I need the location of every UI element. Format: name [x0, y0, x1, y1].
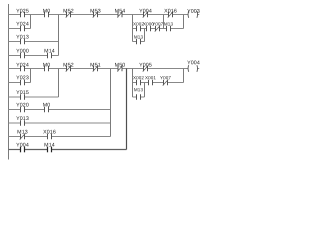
- svg-text:Y020: Y020: [16, 102, 29, 108]
- contact Y007 (NC) r6: [163, 80, 169, 86]
- svg-text:X001: X001: [145, 75, 156, 80]
- contact M50 (NC): [117, 66, 123, 72]
- contact Y005 (NC): [143, 66, 149, 72]
- contact M54 (NC): [117, 12, 123, 18]
- rung 1 wire (Y003 output rung): [9, 14, 200, 16]
- contact M14 (NO) r11: [48, 147, 52, 153]
- svg-text:M14: M14: [44, 142, 55, 148]
- svg-text:M13: M13: [134, 34, 144, 39]
- svg-text:X002: X002: [133, 75, 144, 80]
- left power rail: [8, 4, 10, 160]
- branch wire Y015 row (r7 left): [9, 96, 59, 98]
- svg-text:M50: M50: [115, 62, 126, 68]
- contact Y024 (NO): [21, 26, 25, 32]
- svg-text:M0: M0: [43, 62, 51, 68]
- contact X016 (NO) r10: [48, 134, 52, 140]
- branch wire Y013 row (r3 left): [9, 41, 59, 43]
- svg-text:Y024: Y024: [16, 62, 29, 68]
- svg-text:M52: M52: [63, 8, 74, 14]
- branch wire Y020-M0 row (r8): [9, 109, 111, 111]
- contact X001 (NO): [149, 80, 153, 86]
- svg-text:Y023: Y023: [16, 75, 29, 81]
- branch wire M13-X016 row (r10): [9, 136, 111, 138]
- contact Y025 (NO): [21, 12, 25, 18]
- svg-text:Y013: Y013: [16, 34, 29, 40]
- contact Y000 (NO): [21, 53, 25, 59]
- contact Y007 (NC): [155, 26, 161, 32]
- contact M52 (NC) rung2: [66, 66, 72, 72]
- svg-text:Y013: Y013: [16, 116, 29, 122]
- contact Y015 (NO): [21, 94, 25, 100]
- svg-text:Y005: Y005: [139, 62, 152, 68]
- contact M13 (NC) r10: [20, 134, 26, 140]
- contact Y004 (NC): [143, 12, 149, 18]
- branch wire Y023 row (r6 left): [9, 82, 31, 84]
- svg-text:Y003: Y003: [187, 9, 200, 15]
- coil Y003: [188, 11, 198, 18]
- svg-text:M0: M0: [43, 8, 51, 14]
- branch wire Y013 row (r9): [9, 122, 111, 124]
- junction vertical x163 r1-r2: [163, 15, 165, 29]
- sub-branch wire M13 (r3 right): [133, 41, 145, 43]
- contact M14 (NO): [48, 53, 52, 59]
- branch wire Y000-M14 row (r4): [9, 55, 59, 57]
- svg-text:M54: M54: [115, 8, 126, 14]
- contact M0 (NO) r8: [45, 107, 49, 113]
- junction vertical x110 r5-r10: [110, 69, 112, 137]
- svg-text:Y007: Y007: [152, 21, 163, 26]
- contact M0 (NO) rung2: [45, 66, 49, 72]
- junction vertical x144 r2-r3: [144, 29, 146, 42]
- contact M0 (NO): [45, 12, 49, 18]
- junction vertical x58 r1-r4: [58, 15, 60, 56]
- svg-text:M0: M0: [43, 102, 51, 108]
- svg-text:M13: M13: [134, 87, 144, 92]
- contact M51 (NC): [93, 66, 99, 72]
- svg-text:X016: X016: [43, 129, 56, 135]
- svg-text:M51: M51: [90, 62, 101, 68]
- junction vertical x132 r1-r3: [132, 15, 134, 42]
- contact Y020 (NO): [21, 107, 25, 113]
- sub-branch wire X002-X001-Y007 (r6 right): [133, 82, 184, 84]
- contact M13 (NO) r3: [137, 39, 141, 45]
- sub-branch wire X002-X000-Y007-M13 (r2 right): [133, 28, 184, 30]
- contact Y004 (NO) r11: [21, 147, 25, 153]
- contact M13 (NO) r2: [167, 26, 171, 32]
- contact Y024 (NO) rung2: [21, 66, 25, 72]
- svg-text:M13: M13: [164, 21, 174, 26]
- junction vertical x30 r1-r2: [30, 15, 32, 29]
- contact M13 (NO) r7: [137, 94, 141, 100]
- rung 2 wire (Y004 output rung): [9, 68, 200, 70]
- branch wire Y024 row (r2 left): [9, 28, 31, 30]
- svg-text:Y025: Y025: [16, 8, 29, 14]
- junction vertical x127 r5-r11: [126, 69, 128, 150]
- contact Y013 (NO) r9: [21, 120, 25, 126]
- contact M53 (NC): [93, 12, 99, 18]
- contact X000 (NO): [147, 26, 151, 32]
- junction vertical x58 r5-r7: [58, 69, 60, 98]
- contact Y013 (NO): [21, 39, 25, 45]
- contact X002 (NO) r6: [137, 80, 141, 86]
- contact X002 (NO): [137, 26, 141, 32]
- sub-branch wire M13 (r7 right): [133, 96, 145, 98]
- junction vertical x30 r5-r6: [30, 69, 32, 83]
- junction vertical x132 r5-r7: [132, 69, 134, 98]
- svg-text:Y015: Y015: [16, 90, 29, 96]
- contact Y023 (NO): [21, 80, 25, 86]
- junction vertical x183 r1-r2: [183, 15, 185, 29]
- svg-text:Y000: Y000: [16, 48, 29, 54]
- contact M52 (NC): [66, 12, 72, 18]
- svg-text:M53: M53: [90, 8, 101, 14]
- svg-text:Y004: Y004: [139, 8, 152, 14]
- svg-text:Y004: Y004: [187, 60, 200, 66]
- svg-text:M14: M14: [44, 48, 55, 54]
- svg-text:X016: X016: [164, 8, 177, 14]
- junction vertical x144 r6-r7: [144, 83, 146, 98]
- svg-text:Y024: Y024: [16, 21, 29, 27]
- coil Y004: [188, 65, 198, 72]
- junction vertical x183 r5-r6: [183, 69, 185, 83]
- branch wire Y004-M14 row (r11, drawn heavier): [9, 149, 127, 151]
- svg-text:Y004: Y004: [16, 142, 29, 148]
- svg-text:M13: M13: [17, 129, 28, 135]
- contact X016 (NC): [168, 12, 174, 18]
- svg-text:Y007: Y007: [160, 75, 171, 80]
- svg-text:M52: M52: [63, 62, 74, 68]
